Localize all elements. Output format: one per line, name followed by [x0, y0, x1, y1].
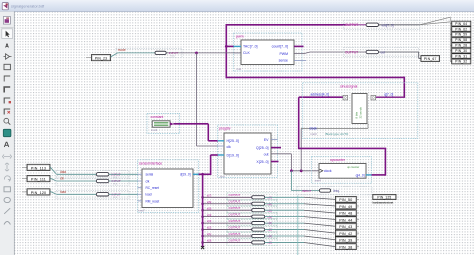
progdiv port D[19..0] — [218, 154, 224, 156]
svg-text:OUTPUT: OUTPUT — [345, 50, 358, 54]
pin box PIN_30 — [452, 48, 471, 53]
wire: data into sensorinterface — [109, 173, 138, 175]
svg-text:PIN_120: PIN_120 — [31, 191, 47, 195]
svg-text:PIN_39: PIN_39 — [339, 239, 352, 243]
toolbar icon: orthogonal conduit tool — [4, 98, 11, 104]
pin box PIN_67 — [421, 56, 440, 62]
wire: bus bottom horizontal y=76 — [226, 76, 405, 78]
wire: x[3] tap to OUTPUT symbol — [203, 222, 252, 224]
svg-text:PIN_62: PIN_62 — [455, 27, 467, 31]
svg-text:PIN_42: PIN_42 — [339, 232, 352, 236]
svg-text:PIN_23: PIN_23 — [95, 57, 107, 61]
wire: bus vertical down to sinussignal q — [403, 77, 405, 98]
node x[6] tap — [201, 202, 204, 205]
wire: x[7] tap to OUTPUT symbol — [203, 196, 252, 198]
node x[3] tap — [201, 222, 204, 225]
title bar document icon — [2, 3, 8, 10]
output pin symbol x[6] — [227, 199, 277, 206]
toolbar icon: document — [3, 17, 10, 25]
svg-text:inst: inst — [237, 67, 242, 71]
sensorinterface port RM_reset — [138, 200, 143, 202]
svg-text:x[7]: x[7] — [207, 193, 212, 197]
node x[2] tap — [201, 228, 204, 231]
toolbar icon: arc shape — [4, 222, 10, 225]
pin box PIN_32 — [452, 59, 471, 64]
svg-text:signalgenerator.bdf: signalgenerator.bdf — [11, 4, 45, 9]
wire: pwm PWM output to OUTPUT out — [294, 53, 304, 55]
pin box PIN_31 — [452, 54, 471, 59]
pin box PIN_28 — [452, 43, 471, 48]
output pin symbol x[3] — [227, 219, 277, 226]
toolbar icon: find — [4, 142, 9, 147]
svg-text:clk: clk — [227, 145, 232, 149]
svg-text:PIN_32: PIN_32 — [455, 60, 467, 64]
wire: x[3] to pin box — [265, 222, 304, 224]
toolbar icon: orthogonal node tool — [4, 76, 10, 82]
svg-text:freq: freq — [334, 189, 340, 193]
svg-text:PIN_113: PIN_113 — [31, 166, 46, 170]
junction on d bus — [201, 173, 204, 176]
selection border left of bottom pin stack — [297, 196, 299, 255]
svg-text:inst7: inst7 — [139, 209, 146, 213]
toolbar icon: symbol tool — [4, 54, 12, 59]
svg-text:load: load — [146, 193, 152, 197]
sinussignal right port connector — [371, 95, 376, 100]
svg-text:PWM: PWM — [279, 52, 288, 56]
svg-text:PIN_67: PIN_67 — [424, 57, 437, 61]
toolbar icon: partition tool — [4, 109, 10, 115]
svg-text:inst4: inst4 — [315, 179, 321, 183]
toolbar icon: rectangle shape — [4, 187, 10, 192]
svg-text:inst: inst — [220, 175, 225, 179]
pwm port sense — [294, 59, 306, 61]
pwm block body — [241, 40, 294, 65]
progdiv port X[25..0] — [271, 161, 279, 163]
pin box PIN_48 — [335, 210, 356, 216]
wire: progdiv out to clock net — [271, 153, 291, 155]
svg-text:pwm: pwm — [236, 35, 244, 39]
node x[7] tap — [201, 196, 204, 199]
svg-text:VCC: VCC — [113, 197, 118, 199]
svg-text:clk: clk — [146, 179, 150, 183]
pin box PIN_44 — [335, 217, 356, 223]
toolbar icon: flip horizontal — [3, 155, 12, 159]
pin box PIN_42 — [335, 230, 356, 236]
toolbar icon: rotate — [4, 176, 10, 182]
svg-text:PIN_43: PIN_43 — [339, 225, 352, 229]
pwm block outline — [234, 33, 303, 71]
svg-text:OUTPUT: OUTPUT — [345, 23, 358, 27]
svg-text:VCC: VCC — [113, 184, 118, 186]
wire: clock branch up to sinussignal clock — [300, 128, 302, 170]
title bar — [0, 0, 474, 12]
wire: bus constant to progdiv H — [173, 123, 208, 125]
svg-text:x[3]: x[3] — [207, 219, 212, 223]
svg-text:RM_reset: RM_reset — [146, 199, 160, 203]
wire: bus q[4..0] to sinussignal address — [372, 174, 386, 176]
svg-text:PIN_111: PIN_111 — [31, 178, 46, 182]
toolbar icon: selection cursor (active) — [2, 29, 13, 39]
pwm port count[7..0] — [294, 45, 304, 47]
svg-text:hardwaretestnet: hardwaretestnet — [373, 200, 394, 204]
progdiv port EV — [271, 139, 278, 141]
wire: PIN_23 to input symbol — [111, 53, 118, 57]
svg-text:EV: EV — [264, 138, 269, 142]
input pin symbol clk — [56, 177, 129, 185]
toolbar icon: ellipse shape — [4, 197, 10, 202]
svg-text:PIN_59: PIN_59 — [455, 33, 467, 37]
output pin symbol x[1] — [227, 232, 277, 239]
svg-text:PIN_58: PIN_58 — [455, 38, 467, 42]
svg-text:Block type: AUTO: Block type: AUTO — [326, 132, 350, 136]
pin box PIN_58 — [452, 37, 471, 42]
wire: x[2] tap to OUTPUT symbol — [203, 229, 252, 231]
svg-text:PIN_30: PIN_30 — [455, 49, 467, 53]
wire: x[6] to pin box — [265, 203, 304, 205]
svg-text:OUTPUT: OUTPUT — [229, 219, 241, 223]
svg-text:sense: sense — [279, 58, 288, 62]
wire: x[7] to pin box — [265, 196, 304, 198]
wire: x[6] tap to OUTPUT symbol — [203, 203, 252, 205]
pin box PIN_43 — [335, 223, 356, 229]
sinussignal block outline — [303, 83, 418, 139]
constant symbol body — [152, 121, 170, 127]
upcounter block body — [319, 164, 366, 179]
wire: freq input riser — [290, 171, 292, 191]
wire: PIN_111 to input symbol clk — [50, 178, 57, 181]
wire: down to PIN_67 — [418, 52, 420, 59]
pin box PIN_64 — [452, 21, 471, 26]
svg-text:PIN_28: PIN_28 — [455, 44, 467, 48]
node x[0] tap — [201, 241, 204, 244]
toolbar icon: flip vertical — [5, 163, 9, 171]
svg-text:PIN_38: PIN_38 — [339, 245, 352, 249]
svg-text:OUTPUT: OUTPUT — [229, 213, 241, 217]
toolbar icon: line shape — [4, 208, 10, 214]
svg-text:x[4]: x[4] — [207, 213, 212, 217]
svg-text:clock: clock — [324, 169, 332, 173]
svg-text:OUTPUT: OUTPUT — [229, 200, 241, 204]
wire: mode vertical to progdiv clk — [196, 53, 198, 146]
pin box PIN_50 — [335, 196, 356, 202]
svg-text:up counter: up counter — [347, 165, 359, 169]
output pin symbol x[7] — [227, 193, 277, 200]
svg-text:CLK: CLK — [243, 51, 250, 55]
toolbar icon: block tool — [4, 64, 10, 69]
fanout wires to top-right pin stack — [420, 17, 451, 25]
sensorinterface port RC_reset — [138, 187, 143, 189]
wire: clock net horizontal to upcounter — [291, 170, 319, 172]
wire: x[1] tap to OUTPUT symbol — [203, 235, 252, 237]
wire: x[4] to pin box — [265, 216, 304, 218]
sensorinterface block body — [142, 169, 193, 208]
output pin symbol x[4] — [227, 212, 277, 219]
svg-text:X[25..0]: X[25..0] — [256, 160, 268, 164]
svg-text:d[19..0]: d[19..0] — [180, 173, 191, 177]
sinussignal clock internal wire — [301, 127, 368, 129]
sensorinterface block outline — [138, 160, 199, 213]
pin box PIN_125 — [373, 194, 396, 199]
svg-text:VCC: VCC — [170, 56, 175, 58]
svg-text:address[4..0]: address[4..0] — [311, 92, 330, 96]
svg-text:x[0]: x[0] — [207, 239, 212, 243]
wire: mode to pwm CLK and junction — [166, 52, 241, 54]
pin box PIN_113 — [22, 166, 27, 168]
node x[5] tap — [201, 209, 204, 212]
svg-text:TAC[7..0]: TAC[7..0] — [243, 45, 258, 49]
svg-text:clock: clock — [310, 127, 318, 131]
svg-text:Q[25..0]: Q[25..0] — [256, 146, 268, 150]
svg-text:8 bits: 8 bits — [354, 111, 358, 118]
svg-text:INPUT: INPUT — [302, 189, 311, 193]
svg-text:PIN_48: PIN_48 — [339, 212, 352, 216]
wire: bus q[7..0] top horizontal to OUTPUT wht — [226, 24, 345, 26]
pin box PIN_38 — [335, 244, 356, 250]
svg-text:RC_reset: RC_reset — [146, 186, 160, 190]
wire: x[5] tap to OUTPUT symbol — [203, 209, 252, 211]
progdiv port Q[25..0] — [271, 147, 281, 149]
pin box PIN_62 — [452, 27, 471, 32]
pin box PIN_120 — [22, 191, 27, 193]
svg-text:inst3: inst3 — [311, 132, 317, 136]
left toolbar — [0, 12, 15, 255]
progdiv port clk — [218, 145, 225, 147]
upcounter block outline — [312, 156, 372, 183]
pin box PIN_39 — [335, 237, 356, 243]
svg-text:x[6]: x[6] — [207, 200, 212, 204]
svg-text:sinussignal: sinussignal — [340, 85, 358, 89]
svg-text:out: out — [264, 153, 269, 157]
upcounter port clock — [320, 169, 323, 172]
svg-text:q[4..0]: q[4..0] — [356, 174, 365, 178]
pin box PIN_111 — [22, 178, 27, 180]
wire: PIN_120 to input symbol load — [50, 191, 57, 194]
sensorinterface port d[19..0] — [193, 173, 199, 175]
wire: x[1] to pin box — [265, 235, 304, 237]
pin box PIN_49 — [335, 203, 356, 209]
svg-text:out: out — [381, 51, 386, 55]
pwm port CLK — [234, 52, 242, 54]
node x[1] tap — [201, 235, 204, 238]
wire: load into sensorinterface — [109, 193, 138, 195]
svg-text:x[1]: x[1] — [207, 232, 212, 236]
progdiv block body — [224, 133, 271, 174]
svg-text:A: A — [5, 44, 9, 50]
wire: bus into q port — [376, 96, 406, 98]
svg-text:PIN_125: PIN_125 — [377, 195, 391, 199]
svg-text:upcounter: upcounter — [330, 158, 346, 162]
pin box PIN_59 — [452, 32, 471, 37]
progdiv port H[25..0] — [218, 140, 224, 142]
constant block outline — [147, 113, 180, 133]
svg-text:count[7..0]: count[7..0] — [272, 45, 288, 49]
svg-text:inst1: inst1 — [151, 128, 158, 132]
svg-text:OUTPUT: OUTPUT — [229, 193, 241, 197]
svg-text:serial: serial — [146, 173, 154, 177]
wire: PIN_113 to input symbol data — [50, 167, 57, 174]
svg-text:OUTPUT: OUTPUT — [229, 206, 241, 210]
svg-text:q[7..0]: q[7..0] — [384, 92, 393, 96]
junction dots on clock net — [290, 169, 293, 172]
svg-text:sensorinterface: sensorinterface — [139, 162, 162, 166]
progdiv block outline — [218, 125, 278, 178]
svg-text:constant: constant — [151, 115, 164, 119]
wire: bus d[19..0] sensorinterface to progdiv D — [199, 173, 211, 175]
wire: x[2] to pin box — [265, 229, 304, 231]
svg-text:OUTPUT: OUTPUT — [229, 225, 241, 229]
wire: bus vertical x=226 — [225, 24, 227, 78]
node x[4] tap — [201, 215, 204, 218]
toolbar icon: zoom — [4, 118, 10, 124]
svg-text:x[5]: x[5] — [207, 206, 212, 210]
input pin symbol mode — [116, 48, 182, 57]
sinussignal left port connector — [343, 95, 348, 100]
sensorinterface port serial — [138, 173, 143, 175]
sinussignal rom body — [352, 94, 367, 124]
svg-text:PIN_31: PIN_31 — [455, 54, 467, 58]
wire: x[5] to pin box — [265, 209, 304, 211]
pwm port TAC[7..0] — [234, 45, 242, 47]
input pin symbol load — [56, 190, 129, 198]
pin box PIN_23 — [86, 57, 91, 59]
wire: x[4] tap to OUTPUT symbol — [203, 216, 252, 218]
svg-text:D[19..0]: D[19..0] — [227, 154, 239, 158]
output pin symbol x[0] — [227, 238, 277, 245]
output pin symbol out — [344, 47, 419, 56]
toolbar icon: orthogonal bus tool — [4, 87, 10, 93]
svg-text:PIN_49: PIN_49 — [339, 205, 352, 209]
wire: x[0] tap to OUTPUT symbol — [203, 241, 252, 243]
svg-text:PIN_64: PIN_64 — [455, 22, 467, 26]
svg-text:x[2]: x[2] — [207, 226, 212, 230]
svg-text:OUTPUT: OUTPUT — [229, 238, 241, 242]
output pin symbol x[2] — [227, 225, 277, 232]
dangling X marker — [201, 246, 204, 249]
svg-text:H[25..0]: H[25..0] — [227, 139, 239, 143]
input pin symbol freq — [297, 186, 372, 195]
wire: fanout bus vertical — [202, 174, 204, 247]
output pin symbol x[5] — [227, 206, 277, 213]
wire: x[0] to pin box — [265, 241, 304, 243]
output pin symbol wht[7..0] — [344, 20, 420, 29]
toolbar icon: full screen (teal) — [3, 129, 11, 136]
svg-text:progdiv: progdiv — [219, 126, 231, 130]
junction: bus to pwm TAC — [226, 45, 234, 47]
svg-text:wht[7..0]: wht[7..0] — [382, 23, 394, 27]
wire: clk into sensorinterface — [109, 180, 138, 182]
input pin symbol data — [56, 170, 129, 178]
svg-text:PIN_44: PIN_44 — [339, 218, 352, 222]
sensorinterface port load — [138, 193, 143, 195]
sensorinterface port clk — [138, 180, 143, 182]
svg-text:OUTPUT: OUTPUT — [229, 232, 241, 236]
svg-text:PIN_50: PIN_50 — [339, 198, 352, 202]
svg-text:32 words: 32 words — [359, 107, 363, 119]
constant output arrow — [170, 122, 174, 125]
svg-text:mode: mode — [118, 48, 126, 52]
